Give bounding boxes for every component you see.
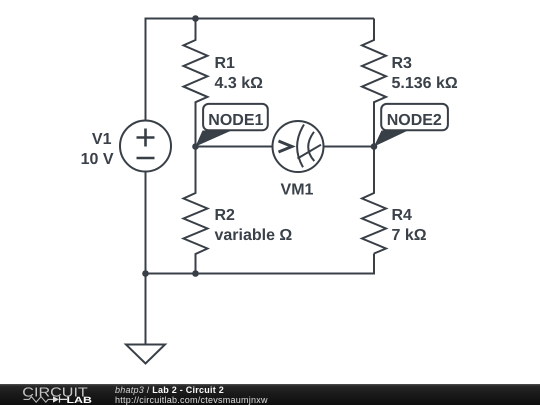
- svg-text:R1: R1: [215, 55, 236, 72]
- junction dot node B: [371, 143, 378, 150]
- svg-text:R4: R4: [392, 207, 413, 224]
- wire voltmeter to node2: [324, 146, 375, 148]
- resistor R3: [362, 19, 386, 147]
- svg-text:V1: V1: [92, 131, 112, 148]
- credit text: [115, 386, 268, 405]
- svg-text:5.136 kΩ: 5.136 kΩ: [392, 75, 458, 92]
- svg-text:NODE1: NODE1: [208, 112, 263, 129]
- voltmeter VM1: [273, 121, 324, 172]
- node label NODE2: [374, 104, 448, 147]
- svg-text:7 kΩ: 7 kΩ: [392, 227, 427, 244]
- svg-text:R2: R2: [215, 207, 236, 224]
- ground: [126, 345, 165, 364]
- svg-text:NODE2: NODE2: [387, 112, 442, 129]
- wire node1 to voltmeter: [196, 146, 273, 148]
- footer bar: [0, 384, 540, 405]
- wire left vertical below V1: [145, 171, 147, 274]
- junction dot bottom left: [142, 270, 149, 277]
- svg-text:10 V: 10 V: [81, 151, 114, 168]
- resistor R1: [184, 19, 208, 147]
- svg-text:4.3 kΩ: 4.3 kΩ: [215, 75, 264, 92]
- svg-text:LAB: LAB: [67, 395, 93, 405]
- CircuitLab logo: [21, 384, 99, 405]
- svg-text:R3: R3: [392, 55, 413, 72]
- node label NODE1: [196, 104, 268, 147]
- wire ground lead: [145, 274, 147, 345]
- wire top rail: [146, 19, 375, 121]
- svg-text:VM1: VM1: [281, 182, 314, 199]
- voltage source V1: [120, 121, 171, 172]
- wire bottom rail: [146, 254, 375, 274]
- resistor R4: [362, 147, 386, 254]
- junction dot node A: [192, 143, 199, 150]
- resistor R2: [184, 147, 208, 274]
- junction dot bottom R2: [192, 270, 199, 277]
- junction dot top: [192, 15, 199, 22]
- svg-text:variable Ω: variable Ω: [215, 227, 293, 244]
